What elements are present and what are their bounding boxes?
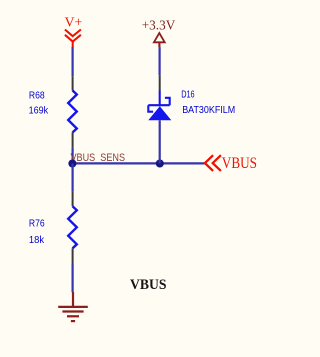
power symbol +3.3V: [154, 33, 165, 47]
wire D16 anode to junction: [159, 120, 161, 163]
svg-text:V+: V+: [65, 16, 83, 31]
svg-text:R68: R68: [29, 90, 45, 101]
wire V+ to R68: [71, 47, 73, 76]
resistor R68: [68, 76, 77, 147]
svg-text:VBUS_SENS: VBUS_SENS: [71, 152, 126, 164]
svg-text:D16: D16: [181, 89, 195, 100]
svg-text:R76: R76: [29, 219, 45, 230]
wire node VBUS_SENS to R76: [71, 164, 73, 192]
wire node VBUS_SENS to VBUS port: [72, 162, 205, 164]
svg-text:VBUS: VBUS: [222, 153, 257, 172]
power symbol V+: [65, 30, 81, 48]
svg-text:+3.3V: +3.3V: [142, 19, 176, 34]
ground: [58, 292, 88, 321]
wire +3.3V to D16: [159, 47, 161, 75]
off-page connector VBUS: [205, 155, 221, 171]
svg-text:18k: 18k: [29, 235, 44, 246]
wire R68 to node VBUS_SENS: [71, 148, 73, 164]
svg-text:169k: 169k: [29, 105, 49, 116]
diode D16: [148, 75, 171, 120]
junction at diode anode node: [156, 159, 164, 167]
wire R76 to ground: [71, 264, 73, 293]
junction at node VBUS_SENS: [68, 159, 76, 167]
svg-text:VBUS: VBUS: [130, 277, 167, 293]
resistor R76: [68, 192, 77, 264]
svg-text:BAT30KFILM: BAT30KFILM: [182, 105, 235, 116]
